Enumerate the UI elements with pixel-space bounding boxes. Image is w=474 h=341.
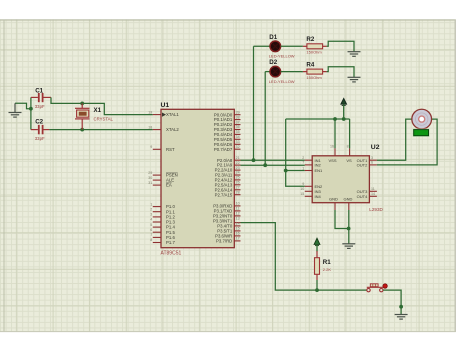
svg-text:14: 14 [371,192,375,196]
capacitor C2 [31,125,50,134]
svg-text:P1.7: P1.7 [166,240,175,245]
svg-text:10: 10 [300,187,304,191]
svg-text:26: 26 [236,181,240,185]
wire OUT1 to motor left [377,119,412,160]
wire D1 to R2 [281,45,303,47]
junction VSS tap [333,117,337,121]
svg-text:RST: RST [166,147,175,152]
svg-text:C1: C1 [35,87,43,94]
svg-text:8: 8 [150,238,152,242]
svg-text:17: 17 [236,237,240,241]
svg-text:23: 23 [236,166,240,170]
U2 bottom pin stubs GND GND [335,203,349,210]
svg-text:15: 15 [236,227,240,231]
crystal X1 [75,103,90,129]
U2 right pin stubs and numbers [369,160,377,196]
U1 left pin stubs and numbers [153,115,161,243]
svg-text:11: 11 [371,187,375,191]
wire D1 vertical to P2.0 [253,46,255,160]
svg-text:XTAL1: XTAL1 [166,112,179,117]
U2 top pin stubs VSS VS [335,148,350,155]
wire P2.1 riser to D2 [265,71,270,73]
svg-text:7: 7 [150,233,152,237]
push button SW1 [367,284,384,292]
wire button to ground [383,290,401,314]
svg-text:OUT4: OUT4 [357,194,368,199]
junction P2.1 node [263,163,267,167]
svg-text:7: 7 [302,161,304,165]
junction EN1 tap [284,169,288,173]
wire P2.1 to IN2 [241,164,305,166]
svg-text:LED-YELLOW: LED-YELLOW [269,54,295,59]
wire R1 to P3.3 wire [316,280,318,290]
svg-text:28: 28 [236,190,240,194]
svg-text:6: 6 [150,228,152,232]
wire +5V bus horizontal [286,118,350,120]
svg-text:39: 39 [236,110,240,114]
LED D2 [270,66,281,77]
junction R1 node [315,288,319,292]
wire U2 GND right down [348,210,350,244]
wire D2 vertical to P2.1 [264,72,266,166]
svg-text:EA: EA [166,183,172,188]
svg-text:14: 14 [236,222,240,226]
svg-text:8: 8 [347,144,349,148]
svg-text:IN4: IN4 [315,194,322,199]
svg-text:2: 2 [150,207,152,211]
motor driver U2 L293D [312,156,369,203]
svg-text:33: 33 [236,140,240,144]
ground GND under U2 [342,244,355,249]
ground GND near C1 [9,113,22,118]
svg-text:3: 3 [150,213,152,217]
power +5V R1 pull-up arrow [314,238,320,251]
junction C1/C2/ground node [29,107,33,111]
svg-text:22: 22 [236,161,240,165]
svg-text:32: 32 [236,145,240,149]
svg-text:C2: C2 [35,119,43,126]
U1 left pin names [166,112,179,245]
svg-text:150Ohm: 150Ohm [306,50,322,55]
resistor R4 [303,69,327,74]
svg-text:VSS: VSS [328,158,336,163]
capacitor C1 [31,93,51,102]
resistor R2 [303,44,327,49]
svg-text:29: 29 [148,171,152,175]
svg-text:OUT2: OUT2 [357,163,368,168]
wire EN1 branch [286,170,305,172]
svg-text:D2: D2 [269,59,277,66]
svg-text:XTAL2: XTAL2 [166,127,179,132]
svg-text:1: 1 [302,166,304,170]
svg-text:9: 9 [150,145,152,149]
svg-text:2: 2 [302,156,304,160]
U1 right pin stubs and numbers [234,115,240,241]
svg-text:EN1: EN1 [315,168,324,173]
svg-text:12: 12 [236,212,240,216]
svg-text:P0.7/AD7: P0.7/AD7 [214,147,233,152]
U1 right pin names [213,112,233,243]
wire OUT2 to motor right [377,119,437,165]
wire C2 to XTAL2 [49,129,152,131]
svg-text:GND: GND [344,196,353,201]
svg-text:19: 19 [148,110,152,114]
wire P2.0 riser to D1 [254,45,271,47]
U2 left pin names [315,158,324,199]
motor speed display [413,129,430,137]
svg-text:30: 30 [148,176,152,180]
wire D2 to R4 [281,71,303,73]
svg-text:33pF: 33pF [35,136,45,141]
svg-text:15: 15 [300,192,304,196]
svg-text:36: 36 [236,125,240,129]
wire bus to EN2 [286,119,305,186]
svg-text:25: 25 [236,176,240,180]
svg-text:R1: R1 [323,259,331,266]
wire P2.0 to IN1 [241,159,305,161]
svg-text:150Ohm: 150Ohm [306,75,322,80]
svg-text:6: 6 [371,161,373,165]
wire R4 to ground [327,67,354,77]
svg-text:AT89C51: AT89C51 [161,251,182,257]
svg-text:1: 1 [150,202,152,206]
svg-text:24: 24 [236,171,240,175]
resistor R1 [315,251,320,280]
junction U2 GND join [347,227,351,231]
svg-text:16: 16 [236,232,240,236]
wire C1-C2 left vertical [30,97,32,129]
svg-text:31: 31 [148,181,152,185]
wire U2 GND left down [335,210,349,229]
U1 XTAL1 arrow [162,113,166,117]
U2 right pin names [357,158,368,199]
svg-text:18: 18 [148,125,152,129]
svg-text:P2.7/A15: P2.7/A15 [215,192,233,197]
LED D1 [270,41,281,52]
junction P2.0 node [252,158,256,162]
svg-text:33pF: 33pF [35,104,45,109]
svg-text:5: 5 [150,223,152,227]
svg-text:4: 4 [150,218,152,222]
power +5V U2 supply arrow [341,98,347,119]
svg-text:9: 9 [302,182,304,186]
wire bus to VSS [334,119,336,148]
svg-text:38: 38 [236,115,240,119]
svg-text:X1: X1 [94,107,102,114]
svg-text:11: 11 [236,207,240,211]
svg-text:CRYSTAL: CRYSTAL [94,117,114,122]
button actuator dot [383,284,387,288]
wire bus to VS [349,119,351,148]
junction crystal bottom node [80,128,84,132]
svg-text:IN2: IN2 [315,163,322,168]
svg-text:GND: GND [329,196,338,201]
junction crystal top node [80,102,84,106]
motor M1 [412,109,432,129]
svg-text:LED-YELLOW: LED-YELLOW [269,79,295,84]
svg-text:R4: R4 [306,61,314,68]
U2 bottom pin names [329,196,353,201]
U2 left pin stubs and numbers [305,160,312,196]
svg-text:VS: VS [346,158,352,163]
svg-text:21: 21 [236,156,240,160]
wire ground to C1/C2 node [15,103,31,108]
microcontroller U1 AT89C51 [161,109,234,247]
junction supply tap [342,117,346,121]
svg-text:L293D: L293D [369,207,383,212]
svg-text:D1: D1 [269,34,277,41]
svg-text:R2: R2 [306,36,314,43]
junction button gnd node [399,305,403,309]
svg-text:37: 37 [236,120,240,124]
wire C1 to XTAL1 [51,97,153,114]
svg-text:P3.7/RD: P3.7/RD [216,239,232,244]
U2 top pin names [328,158,352,163]
svg-text:U1: U1 [161,102,170,109]
svg-text:27: 27 [236,186,240,190]
svg-text:16: 16 [330,144,334,148]
ground GND after R4 [348,77,361,82]
svg-text:34: 34 [236,135,240,139]
svg-text:3: 3 [371,156,373,160]
svg-text:2.2K: 2.2K [323,267,332,272]
ground GND under button [395,315,408,320]
svg-text:10: 10 [236,202,240,206]
wire P3.3 to button [241,223,367,291]
ground GND after R2 [348,52,361,57]
wire R2 to ground [327,41,354,51]
svg-text:U2: U2 [371,144,380,151]
svg-text:13: 13 [236,217,240,221]
svg-text:35: 35 [236,130,240,134]
